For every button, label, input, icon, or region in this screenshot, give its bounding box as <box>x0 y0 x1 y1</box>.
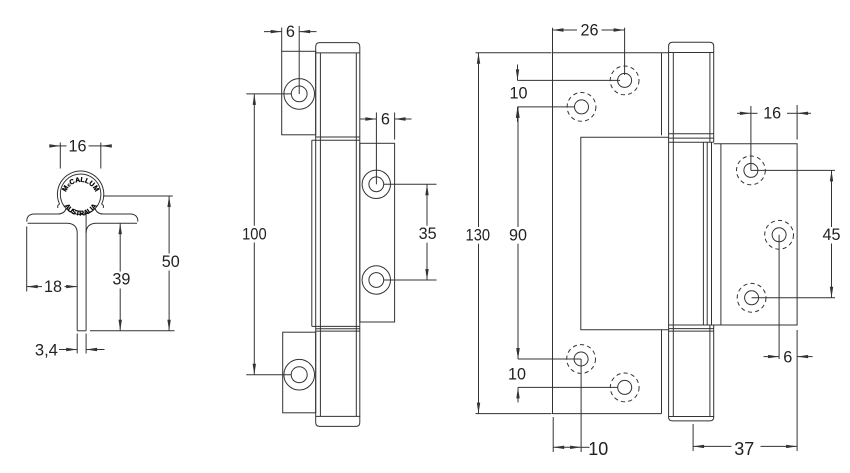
left view: left wing top edge with end curl and fillet to knuckle <box>27 208 66 221</box>
middle view: top-left screw hole inner circle <box>291 86 307 102</box>
right view: left plate top hole B dashed circle <box>567 93 596 122</box>
dimension 37 extension lines <box>692 424 694 451</box>
middle view: barrel body outer edges <box>315 53 317 417</box>
svg-text:6: 6 <box>381 110 390 128</box>
right view: left plate top hole B solid circle <box>575 100 589 114</box>
right view: recess rectangle on left plate <box>581 137 669 329</box>
dimension 100 leader lines to hole centers <box>246 93 291 95</box>
svg-text:10: 10 <box>508 365 526 383</box>
dimension 10 (top) leader lines <box>518 79 621 81</box>
right view: left plate bottom hole C dashed circle <box>567 345 596 374</box>
left view: wrap end curl left <box>58 204 60 208</box>
svg-text:6: 6 <box>286 23 295 41</box>
middle view: upper knuckle joint lines <box>316 136 360 138</box>
dimension 130 extension lines <box>476 52 552 54</box>
middle view: right leaf lower hole inner circle <box>369 273 384 288</box>
dimension 6 (middle right) arrows <box>360 118 377 120</box>
left view: curved text AUSTRALIA <box>63 202 99 216</box>
svg-text:90: 90 <box>509 226 527 244</box>
left view: right wing bottom edge and fillet to leaf <box>86 223 137 233</box>
dimension 10 (bottom) extension lines <box>552 417 554 452</box>
dimension 50 line and arrows <box>168 196 170 254</box>
right view: upper knuckle joint lines <box>669 133 714 135</box>
svg-text:100: 100 <box>242 226 267 244</box>
svg-text:10: 10 <box>510 84 528 102</box>
middle view: bottom-left screw hole outer circle <box>284 359 315 390</box>
left view: right wing top edge with fillet and end curl <box>95 208 138 221</box>
right view: left plate bottom hole D solid circle <box>618 380 632 394</box>
right view: right leaf fold line <box>720 144 722 325</box>
right view: left plate bottom hole C solid circle <box>574 352 588 366</box>
dimension 45 leader lines <box>751 169 835 171</box>
middle view: right leaf lower hole outer circle <box>362 266 390 294</box>
middle view: bottom-left screw hole inner circle <box>291 367 307 383</box>
dimension 18 extension line <box>26 227 28 292</box>
right view: left plate top hole A dashed circle <box>610 66 639 95</box>
svg-text:16: 16 <box>763 105 781 123</box>
right view: right leaf bottom hole solid circle <box>745 291 759 305</box>
middle view: top-left screw hole outer circle <box>284 79 315 110</box>
svg-text:26: 26 <box>581 21 599 39</box>
middle view: right leaf upper hole inner circle <box>369 177 384 192</box>
right view: right leaf plate outline <box>714 144 797 325</box>
middle view: middle knuckle wrap line <box>311 140 313 326</box>
dimension 35 leader lines to hole centers <box>384 183 437 185</box>
right view: lower knuckle joint lines <box>669 324 714 326</box>
dimension 6 (middle top) extension lines <box>281 28 283 52</box>
right view: barrel inner edges <box>672 53 674 417</box>
dimension 37 line and arrows <box>693 445 731 447</box>
middle view: barrel top cap <box>316 43 360 53</box>
svg-text:130: 130 <box>466 226 491 244</box>
dimension 45 line and arrows <box>831 170 833 227</box>
dimension 6 (middle right) extension lines <box>375 113 377 185</box>
dimension 130 line and arrows <box>478 53 480 227</box>
right view: left plate bottom hole D dashed circle <box>610 373 639 402</box>
dimension 100 line and arrows <box>253 94 255 226</box>
right view: barrel outer edges <box>668 53 670 417</box>
left view: wrap end curl right <box>102 204 104 208</box>
right view: right leaf top hole dashed circle <box>737 156 766 185</box>
dimension 39 line and arrows <box>119 223 121 271</box>
right view: right leaf top hole solid circle <box>744 163 758 177</box>
middle view: top-left leaf plate <box>282 51 316 135</box>
right view: barrel middle section right edge <box>711 142 713 325</box>
dimension 16 (left view) extension lines <box>59 143 61 169</box>
dimension 90 line and arrows <box>517 107 519 227</box>
svg-text:16: 16 <box>69 137 87 155</box>
left view: leaf wrap outer arc around knuckle <box>57 171 103 204</box>
svg-text:6: 6 <box>783 349 792 367</box>
left view: leaf bottom edge <box>77 330 86 332</box>
right view: middle knuckle wrap lines <box>702 142 704 325</box>
svg-text:35: 35 <box>419 225 437 243</box>
middle view: lower knuckle joint lines <box>312 325 360 327</box>
dimension 50 top extension line from knuckle center <box>103 195 173 197</box>
dimension 10 (top) arrows <box>517 65 519 81</box>
right view: right leaf bottom hole dashed circle <box>737 283 766 312</box>
left view: curved text McCALLUM <box>65 182 96 204</box>
left view: knuckle barrel circle <box>60 174 101 215</box>
dimension 50 bottom extension line from leaf bottom <box>90 330 175 332</box>
svg-text:45: 45 <box>823 226 841 244</box>
middle view: bottom-left leaf plate <box>283 332 316 413</box>
middle view: middle-right leaf plate <box>360 143 395 322</box>
right view: left plate right edge upper segment <box>661 53 663 136</box>
svg-text:3,4: 3,4 <box>35 341 58 359</box>
svg-text:37: 37 <box>734 438 754 459</box>
svg-text:50: 50 <box>162 253 180 271</box>
svg-text:39: 39 <box>112 270 130 288</box>
dimension 18 line and arrows <box>27 286 42 288</box>
dimension 10 (bottom-left) arrows <box>517 344 519 359</box>
dimension 16 (right view) extension lines <box>750 106 752 170</box>
dimension 26 extension lines <box>552 28 554 55</box>
dimension 3,4 extension lines <box>76 334 78 354</box>
dimension 26 line and arrows <box>553 29 578 31</box>
dimension 16 (left view) line and arrows <box>50 145 61 147</box>
dimension 6 (middle top) arrows <box>264 31 282 33</box>
svg-text:18: 18 <box>44 278 62 296</box>
svg-text:AUSTRALIA: AUSTRALIA <box>63 203 99 218</box>
left view: leaf right edge <box>85 214 87 331</box>
dimension 16 (right view) line and arrows <box>737 112 751 114</box>
middle view: barrel bottom cap <box>316 416 360 426</box>
right view: left plate right edge lower segment <box>661 330 663 414</box>
right view: left leaf plate outline <box>553 53 669 414</box>
svg-text:10: 10 <box>588 438 608 459</box>
right view: barrel top cap <box>669 42 714 52</box>
middle view: right leaf upper hole outer circle <box>362 170 390 198</box>
dimension 35 line and arrows <box>426 184 428 226</box>
dimension 10 (bottom) line and arrows <box>553 446 581 448</box>
dimension 6 (right view) extension line from middle hole <box>778 235 780 359</box>
right view: left plate top hole A solid circle <box>618 73 632 87</box>
right view: right leaf middle hole dashed circle <box>765 220 794 249</box>
middle view: barrel body inner edges <box>319 53 321 417</box>
dimension 6 (right view) arrows <box>764 356 780 358</box>
dimension 10 (bottom-left) leader lines <box>518 358 581 360</box>
left view: left wing bottom edge and fillet to leaf <box>28 223 78 331</box>
right view: barrel bottom cap <box>669 417 714 421</box>
dimension 3,4 line and arrows <box>59 349 77 351</box>
right view: right leaf middle hole solid circle <box>772 228 786 242</box>
